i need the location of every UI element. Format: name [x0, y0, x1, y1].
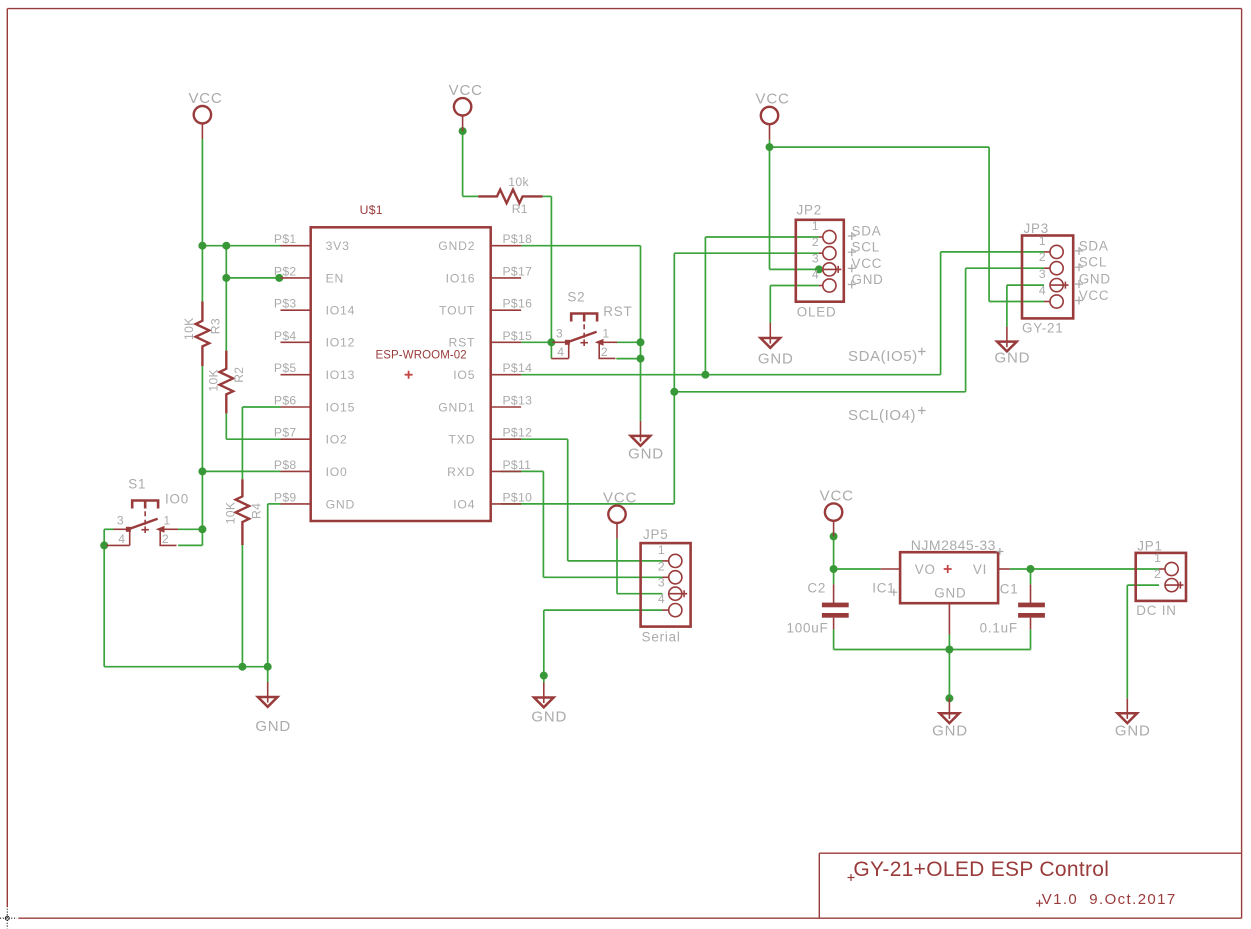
JP3 pin name SDA	[1075, 247, 1083, 255]
title block left line	[818, 853, 820, 918]
wire VCC-C horizontal to JP3	[770, 146, 990, 148]
wire JP5 pin4 down to GND	[543, 610, 545, 682]
frame bottom edge	[18, 917, 1241, 919]
svg-text:GND: GND	[1079, 272, 1111, 287]
wire R1 to RST column	[543, 195, 552, 197]
junction VI / C1	[1027, 565, 1035, 573]
wire SDA into JP3 pin1	[941, 251, 1044, 253]
svg-text:GND: GND	[531, 709, 567, 726]
svg-text:P$3: P$3	[274, 297, 297, 311]
junction S1 pin1	[198, 525, 206, 533]
wire P$9 down to ground rail	[267, 504, 269, 667]
svg-text:R2: R2	[232, 367, 246, 383]
svg-text:SDA: SDA	[852, 224, 882, 239]
wire S1 pin4 to rail	[103, 545, 105, 666]
JP2 pin name GND	[848, 281, 856, 289]
svg-text:4: 4	[812, 268, 819, 282]
U$1 pin P$3 IO14	[281, 309, 311, 311]
svg-text:P$16: P$16	[503, 297, 533, 311]
svg-text:U$1: U$1	[360, 203, 383, 217]
header JP5 Serial	[641, 527, 691, 645]
IC1 pin VO	[881, 568, 901, 570]
wire JP2 pin4 down to GND	[769, 286, 771, 324]
junction R2 column at P$1	[222, 242, 230, 250]
switch S2 RST	[551, 290, 632, 360]
IC1 pin GND	[948, 603, 950, 634]
svg-text:P$2: P$2	[274, 264, 297, 278]
wire JP1 pin2	[1127, 584, 1159, 586]
svg-text:P$14: P$14	[503, 361, 533, 375]
IC1 pin VI	[998, 568, 1010, 570]
svg-text:P$13: P$13	[503, 394, 533, 408]
svg-text:GND1: GND1	[438, 400, 475, 414]
JP2 pin name SDA	[848, 232, 856, 240]
wire P$8 IO0	[202, 470, 280, 472]
U$1 pin P$14 IO5	[491, 374, 521, 376]
wire S2 to GND symbol	[640, 359, 642, 421]
svg-text:3V3: 3V3	[326, 239, 350, 253]
U$1 left pad labels	[274, 232, 297, 504]
svg-text:IO2: IO2	[326, 433, 348, 447]
U$1 pin P$8 IO0	[281, 470, 311, 472]
svg-text:RXD: RXD	[447, 465, 475, 479]
GND symbol (below JP2)	[761, 323, 781, 348]
wire VCC-D into JP5 pin3	[617, 593, 663, 595]
wire RXD P$11	[501, 470, 544, 472]
svg-text:VCC: VCC	[820, 487, 854, 504]
svg-text:2: 2	[1154, 567, 1161, 581]
junction R4 at ground rail	[238, 663, 246, 671]
U$1 pin P$17 IO16	[491, 277, 521, 279]
svg-text:2: 2	[812, 235, 819, 249]
JP2 pin 4	[819, 285, 823, 287]
resistor R3 10K	[182, 302, 223, 367]
svg-text:2: 2	[162, 532, 169, 546]
wire bottom ground rail	[104, 666, 268, 668]
U$1 pin P$2 EN	[281, 277, 311, 279]
wire GND2 down to S2 pin1	[640, 246, 642, 343]
VCC supply symbol (above JP5)	[608, 506, 625, 539]
svg-text:OLED: OLED	[797, 305, 837, 320]
svg-text:TOUT: TOUT	[439, 304, 475, 318]
VCC supply symbol (power input)	[825, 503, 842, 536]
svg-text:4: 4	[557, 345, 564, 359]
frame left edge	[6, 9, 8, 908]
wire RXD down	[542, 471, 544, 577]
svg-text:4: 4	[118, 532, 125, 546]
wire SCL down to IO4	[673, 392, 675, 504]
JP5 pin 4	[663, 609, 669, 611]
capacitor C2 100uF	[787, 581, 849, 636]
header JP3 GY-21	[1022, 221, 1111, 336]
svg-text:RST: RST	[603, 304, 632, 319]
wire S2 pin1	[616, 341, 640, 343]
wire R2 bottom to P$7	[225, 413, 227, 439]
junction below VCC-B	[459, 127, 467, 135]
svg-text:10K: 10K	[223, 502, 237, 525]
wire RXD into JP5 pin2	[543, 576, 662, 578]
wire VCC-A to P$1 rail	[201, 139, 203, 246]
junction SCL branch	[670, 388, 678, 396]
svg-text:10K: 10K	[206, 369, 220, 392]
svg-text:10k: 10k	[508, 175, 529, 189]
wire SCL(IO4) horizontal	[674, 391, 965, 393]
wire S1 pin1 to IO0	[178, 528, 202, 530]
svg-text:GND: GND	[995, 350, 1031, 367]
junction VCC-C	[766, 143, 774, 151]
svg-text:P$10: P$10	[503, 490, 533, 504]
svg-text:4: 4	[658, 592, 665, 606]
JP2 pin 3	[823, 266, 842, 273]
wire S2 pole tie	[550, 342, 552, 358]
wire P$6 IO15	[242, 406, 280, 408]
wire R2 top from EN junction	[225, 278, 227, 351]
svg-text:IO4: IO4	[453, 497, 475, 511]
svg-text:RST: RST	[449, 336, 476, 350]
U$1 pin P$11 RXD	[491, 470, 521, 472]
JP5 pin 2	[663, 576, 669, 578]
svg-text:IO5: IO5	[453, 368, 475, 382]
svg-text:VCC: VCC	[852, 256, 883, 271]
junction at EN pin	[275, 274, 283, 282]
wire SCL vertical	[673, 253, 675, 392]
wire TXD into JP5 pin1	[568, 560, 663, 562]
svg-text:3: 3	[117, 514, 124, 528]
junction above power GND symbol	[945, 694, 953, 702]
wire VCC-B to R1	[463, 195, 479, 197]
svg-text:GY-21+OLED ESP Control: GY-21+OLED ESP Control	[853, 858, 1109, 881]
svg-text:4: 4	[1039, 284, 1046, 298]
GND symbol (below JP5)	[534, 683, 554, 708]
origin marker circle	[5, 916, 9, 920]
svg-text:0.1uF: 0.1uF	[980, 621, 1018, 636]
U$1 pin P$1 3V3	[281, 245, 311, 247]
JP3 pin name SCL	[1075, 263, 1083, 271]
version origin cross	[1036, 900, 1043, 907]
junction P$1/VCC	[198, 242, 206, 250]
U$1 pin P$13 GND1	[491, 406, 521, 408]
svg-text:GY-21: GY-21	[1022, 321, 1063, 336]
junction ground rail corner	[264, 663, 272, 671]
wire TXD down	[567, 439, 569, 561]
svg-text:R3: R3	[209, 318, 223, 334]
svg-text:SCL: SCL	[852, 240, 880, 255]
svg-text:100uF: 100uF	[787, 621, 829, 636]
JP2 pin name SCL	[848, 248, 856, 256]
resistor R4 10K	[223, 479, 263, 545]
wire C2 bottom	[833, 629, 835, 649]
U$1 pin P$16 TOUT	[491, 309, 521, 311]
junction below VCC-E	[830, 532, 838, 540]
svg-text:R4: R4	[249, 503, 263, 519]
title origin cross	[848, 874, 855, 881]
wire JP2 pin4 GND	[770, 285, 819, 287]
wire S1 pin3 stub	[104, 528, 113, 530]
JP3 pin 3	[1050, 282, 1069, 289]
GND symbol (power section center)	[940, 698, 960, 723]
junction R2 top at P$2	[222, 274, 230, 282]
svg-text:P$17: P$17	[503, 264, 533, 278]
svg-text:IC1: IC1	[872, 580, 895, 595]
svg-text:SCL(IO4): SCL(IO4)	[848, 407, 916, 424]
wire VCC to R3 top	[201, 246, 203, 302]
wire C2 top	[833, 569, 835, 584]
svg-text:1: 1	[812, 219, 819, 233]
header JP1 DC IN	[1136, 539, 1186, 619]
wire SDA branch up to JP2 pin1	[704, 237, 706, 375]
frame right edge	[1241, 9, 1243, 919]
wire TXD P$12	[501, 438, 568, 440]
wire VCC down to JP2 pin3	[769, 147, 771, 269]
wire C1 bottom	[1030, 629, 1032, 649]
junction IC1 GND rail	[945, 646, 953, 654]
wire RST pin to S2	[521, 341, 551, 343]
svg-text:C1: C1	[1000, 582, 1019, 597]
GND symbol (bottom left rail)	[258, 682, 278, 707]
svg-text:P$5: P$5	[274, 361, 297, 375]
junction P$8/R3	[198, 467, 206, 475]
JP5 pin 1	[663, 560, 669, 562]
wire SCL into JP3 pin2	[966, 267, 1044, 269]
wire IO4 P$10	[501, 503, 675, 505]
wire ground rail to GND symbol	[267, 667, 269, 682]
frame top edge	[7, 8, 1241, 10]
svg-text:GND: GND	[852, 272, 884, 287]
svg-text:ESP-WROOM-02: ESP-WROOM-02	[376, 350, 467, 362]
JP3 pin name GND	[1075, 280, 1083, 288]
wire R1 down to RST	[550, 196, 552, 342]
U$1 pin P$7 IO2	[281, 438, 311, 440]
svg-text:1: 1	[1039, 234, 1046, 248]
svg-text:1: 1	[658, 543, 665, 557]
wire P$7 IO2	[226, 438, 280, 440]
svg-text:GND: GND	[1115, 722, 1151, 739]
VCC supply symbol (above R1)	[454, 98, 471, 131]
svg-text:GND: GND	[758, 351, 794, 368]
svg-text:GND: GND	[628, 446, 664, 463]
U$1 pin P$6 IO15	[281, 406, 311, 408]
junction S2 pin1	[637, 338, 645, 346]
wire VCC-B drop	[462, 131, 464, 196]
wire JP1 pin2 down to GND	[1126, 585, 1128, 698]
svg-text:SDA(IO5): SDA(IO5)	[848, 348, 918, 365]
svg-text:IO0: IO0	[165, 491, 189, 506]
regulator IC1 NJM2845-33	[872, 537, 1010, 634]
svg-text:2: 2	[601, 345, 608, 359]
svg-text:GND: GND	[934, 585, 966, 600]
svg-text:P$8: P$8	[274, 458, 297, 472]
svg-text:SDA: SDA	[1079, 238, 1109, 253]
junction JP5 GND drop	[540, 672, 548, 680]
JP1 pin 2	[1165, 582, 1184, 589]
U$1 left pin names	[326, 239, 356, 511]
svg-text:SCL: SCL	[1079, 255, 1107, 270]
wire P$1 3V3	[202, 245, 280, 247]
svg-text:1: 1	[602, 327, 609, 341]
svg-text:DC IN: DC IN	[1136, 603, 1176, 618]
svg-text:VCC: VCC	[1079, 288, 1110, 303]
wire VCC into JP3 pin4	[989, 301, 1044, 303]
wire JP5 pin4	[544, 609, 663, 611]
svg-text:VO: VO	[915, 562, 936, 577]
VCC supply symbol (above JP2/JP3)	[761, 107, 778, 140]
wire P$2 EN	[226, 277, 280, 279]
junction S2 pin2	[637, 355, 645, 363]
wire S1 pole drop	[103, 529, 105, 545]
svg-text:JP2: JP2	[797, 202, 822, 217]
svg-text:GND2: GND2	[438, 239, 475, 253]
switch S1 IO0	[107, 477, 189, 547]
svg-text:NJM2845-33: NJM2845-33	[911, 537, 996, 553]
svg-text:EN: EN	[326, 271, 345, 285]
svg-text:V1.0 9.Oct.2017: V1.0 9.Oct.2017	[1042, 891, 1177, 908]
wire R4 bottom to ground rail	[241, 545, 243, 667]
svg-text:IO14: IO14	[326, 304, 356, 318]
wire SCL vertical to JP3	[965, 268, 967, 392]
svg-text:1: 1	[163, 514, 170, 528]
GND symbol (below S2)	[631, 421, 651, 446]
wire power ground rail	[834, 649, 1031, 651]
wire S2 pin2	[616, 358, 640, 360]
wire R3 bottom to IO0 net	[201, 366, 203, 471]
svg-text:P$1: P$1	[274, 232, 297, 246]
U$1 pin P$4 IO12	[281, 341, 311, 343]
wire VCC-C stub	[769, 140, 771, 147]
U$1 pin P$18 GND2	[491, 245, 521, 247]
svg-text:P$18: P$18	[503, 232, 533, 246]
svg-text:3: 3	[658, 576, 665, 590]
U$1 right pin names	[438, 239, 475, 511]
net label SCL cross	[918, 407, 926, 415]
U$1 pin P$5 IO13	[281, 374, 311, 376]
svg-text:P$12: P$12	[503, 426, 533, 440]
junction at JP2 pin3	[815, 265, 823, 273]
svg-text:P$7: P$7	[274, 426, 297, 440]
wire IC1 GND pin to rail	[948, 634, 950, 649]
svg-text:3: 3	[812, 251, 819, 265]
wire S1 pin1-pin2 tie	[201, 529, 203, 545]
wire S2 pin1-pin2 tie	[640, 342, 642, 358]
wire C1 top	[1030, 569, 1032, 584]
svg-text:S2: S2	[567, 290, 585, 305]
JP1 pin 1	[1159, 568, 1165, 570]
capacitor C1 0.1uF	[980, 582, 1045, 636]
title block top line	[819, 852, 1241, 854]
junction S2 pin3 / RST	[547, 338, 555, 346]
sheet origin cross	[0, 909, 17, 929]
svg-text:VCC: VCC	[449, 82, 483, 99]
svg-text:P$11: P$11	[503, 458, 532, 472]
svg-text:IO15: IO15	[326, 400, 356, 414]
svg-text:P$4: P$4	[274, 329, 297, 343]
wire JP2 pin2 SCL	[674, 252, 819, 254]
wire VCC-E drop	[833, 536, 835, 569]
JP3 pin 1	[1044, 251, 1050, 253]
wire JP3 pin3 down to GND	[1006, 285, 1008, 327]
U$1 pin P$15 RST	[491, 341, 521, 343]
U$1 right pad labels	[503, 232, 533, 504]
svg-text:VCC: VCC	[603, 490, 637, 507]
JP2 pin 1	[819, 236, 823, 238]
svg-text:IO16: IO16	[446, 271, 476, 285]
svg-text:3: 3	[1039, 267, 1046, 281]
net label SDA cross	[918, 348, 926, 356]
U$1 pin P$10 IO4	[491, 503, 521, 505]
svg-text:2: 2	[658, 559, 665, 573]
wire VCC down to JP3 pin4	[988, 147, 990, 301]
svg-text:GND: GND	[932, 722, 968, 739]
junction VCC-E corner	[830, 565, 838, 573]
wire IC1 VI to JP1 pin1	[1010, 568, 1159, 570]
JP3 pin 2	[1044, 267, 1050, 269]
wire rail to GND symbol	[948, 650, 950, 699]
wire branch to R2 column	[225, 246, 227, 278]
svg-text:2: 2	[1039, 250, 1046, 264]
svg-text:GND: GND	[326, 497, 355, 511]
U$1 pin P$12 TXD	[491, 438, 521, 440]
svg-text:P$9: P$9	[274, 490, 297, 504]
svg-text:IO13: IO13	[326, 368, 356, 382]
junction SDA branch	[701, 371, 709, 379]
svg-text:IO0: IO0	[326, 465, 348, 479]
svg-text:TXD: TXD	[449, 433, 476, 447]
junction S1 pin4	[100, 541, 108, 549]
svg-text:VCC: VCC	[188, 90, 222, 107]
resistor R2 10K	[206, 351, 246, 414]
svg-text:3: 3	[556, 327, 563, 341]
svg-text:VI: VI	[973, 562, 987, 577]
wire SDA vertical to JP3	[940, 252, 942, 375]
wire JP3 pin3 GND	[1007, 284, 1044, 286]
resistor R1 10k	[478, 175, 543, 216]
JP3 pin name VCC	[1075, 297, 1083, 305]
U$1 pin P$9 GND	[281, 503, 311, 505]
svg-text:VCC: VCC	[756, 91, 790, 108]
svg-text:GND: GND	[255, 718, 291, 735]
wire SDA into JP2 pin1	[705, 236, 819, 238]
op module U$1 ESP-WROOM-02	[311, 203, 491, 521]
wire SDA(IO5) horizontal	[521, 374, 941, 376]
GND symbol (below JP3)	[997, 327, 1017, 352]
svg-text:R1: R1	[512, 202, 528, 216]
JP5 pin 3	[669, 590, 688, 597]
svg-text:IO12: IO12	[326, 336, 356, 350]
JP3 pin 4	[1044, 301, 1050, 303]
wire VCC into JP2 pin3	[770, 268, 819, 270]
wire IO0 net down to S1	[201, 471, 203, 529]
wire VCC-E to IC1 VO	[834, 568, 881, 570]
wire S1 pin2 link	[178, 544, 202, 546]
svg-text:Serial: Serial	[642, 630, 681, 645]
wire GND2 P$18	[521, 245, 640, 247]
GND symbol (below JP1)	[1118, 698, 1138, 723]
wire IO15 down to R4	[241, 407, 243, 479]
wire P$9 GND	[268, 503, 281, 505]
JP2 pin 2	[819, 252, 823, 254]
svg-text:C2: C2	[807, 581, 826, 596]
svg-text:JP5: JP5	[643, 527, 668, 542]
header JP2 OLED	[796, 202, 884, 319]
svg-text:S1: S1	[128, 477, 146, 492]
JP2 pin name VCC	[848, 264, 856, 272]
svg-text:P$6: P$6	[274, 394, 297, 408]
VCC supply symbol (top left)	[194, 106, 211, 139]
svg-text:10K: 10K	[182, 317, 196, 340]
svg-text:1: 1	[1154, 551, 1161, 565]
wire VCC-D drop	[616, 539, 618, 594]
svg-text:P$15: P$15	[503, 329, 533, 343]
